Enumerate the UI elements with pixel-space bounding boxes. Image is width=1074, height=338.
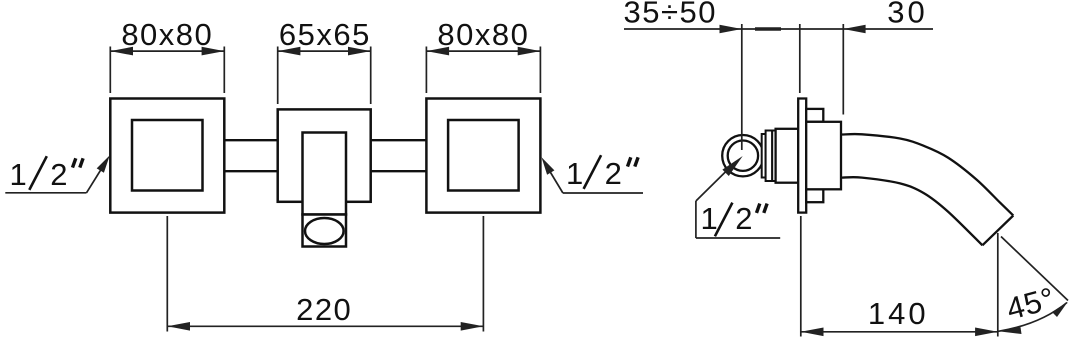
label 1/2 inch right: quote tick 2 xyxy=(635,157,638,166)
dimension 140: dimension line xyxy=(801,331,998,333)
collar ring xyxy=(766,131,773,182)
label 1/2 inch side: vertical leader segment xyxy=(695,201,697,238)
label 1/2 inch side: quote tick 2 xyxy=(764,204,767,213)
svg-text:30: 30 xyxy=(887,0,927,29)
dimension 140: extension line left xyxy=(800,216,802,337)
dimension 80x80 left: extension line right xyxy=(223,47,225,94)
collar cylinder xyxy=(776,129,799,183)
svg-text:80x80: 80x80 xyxy=(437,17,529,52)
dimension 65x65: dimension line xyxy=(278,50,371,52)
spout tube bottom curve xyxy=(842,177,982,245)
dimension 65x65: extension line left xyxy=(277,47,279,105)
dimension 140: extension line right xyxy=(997,233,999,337)
dimension 80x80 right: left arrowhead xyxy=(426,47,449,56)
dimension 65x65: right arrowhead xyxy=(348,47,371,56)
label 1/2 inch left: quote tick 2 xyxy=(80,158,83,167)
svg-text:140: 140 xyxy=(868,296,929,331)
top dimension line xyxy=(624,28,933,30)
extension line at body front xyxy=(842,24,844,115)
extension line at wall face xyxy=(799,24,801,93)
collar neck xyxy=(762,134,766,178)
svg-text:80x80: 80x80 xyxy=(121,17,213,52)
spout bottom square xyxy=(303,215,347,247)
label 1/2 inch right: leader line xyxy=(545,163,563,194)
svg-text:220: 220 xyxy=(296,292,352,327)
bottom step block xyxy=(806,189,823,202)
left plate inner square xyxy=(132,120,203,191)
svg-text:65x65: 65x65 xyxy=(279,17,371,52)
45 degree reference line xyxy=(1001,237,1068,301)
45 degree arc arrowhead right xyxy=(1052,302,1068,317)
right plate outer square xyxy=(426,99,540,213)
dimension 65x65: extension line right xyxy=(370,47,372,105)
dimension 220: left arrowhead xyxy=(167,322,190,331)
label 1/2 inch right: underline xyxy=(563,192,643,194)
spout body block xyxy=(806,122,841,190)
label 1/2 inch right: quote tick 1 xyxy=(628,157,631,166)
label 1/2 inch left: quote tick 1 xyxy=(73,158,76,167)
svg-text:1: 1 xyxy=(701,201,718,236)
top dimension thick dash xyxy=(755,27,781,30)
label 1/2 inch left: underline xyxy=(5,192,86,194)
dimension 80x80 left: extension line left xyxy=(109,47,111,94)
connecting bar left (top edge) xyxy=(224,139,277,141)
arrowhead pointing left at body front xyxy=(843,25,865,34)
connecting bar right (bottom edge) xyxy=(371,170,427,172)
wall plate (side) xyxy=(798,99,806,213)
label 1/2 inch right: slash xyxy=(584,155,602,189)
dimension 140: right arrowhead xyxy=(975,328,998,337)
label 1/2 inch side: quote tick 1 xyxy=(757,204,760,213)
right plate inner square xyxy=(448,120,518,191)
connecting bar right (top edge) xyxy=(371,139,427,141)
45 degree arc xyxy=(998,303,1067,332)
supply connection inner circle xyxy=(728,141,758,171)
dimension 80x80 right: dimension line xyxy=(426,50,540,52)
dimension 80x80 left: dimension line xyxy=(110,50,224,52)
label 1/2 inch left: arrowhead xyxy=(97,155,110,173)
svg-text:2: 2 xyxy=(735,201,752,236)
label 1/2 inch right: arrowhead xyxy=(542,157,555,175)
arrowhead pointing right at connection axis xyxy=(720,25,742,34)
dimension 220: dimension line xyxy=(167,325,483,327)
spout end face xyxy=(982,216,1013,246)
middle inner vertical rectangle xyxy=(303,133,347,215)
dimension 220: right arrowhead xyxy=(461,322,484,331)
svg-text:2: 2 xyxy=(605,156,622,191)
label 1/2 inch left: slash xyxy=(29,156,47,190)
collar band xyxy=(772,131,775,182)
connecting bar left (bottom edge) xyxy=(224,170,277,172)
dimension 80x80 right: extension line left xyxy=(425,47,427,94)
dimension 80x80 right: right arrowhead xyxy=(518,47,541,56)
label 1/2 inch side: slash xyxy=(715,203,733,237)
45 degree arc arrowhead left xyxy=(998,327,1021,334)
dimension 220: extension line right xyxy=(482,216,484,332)
label 1/2 inch side: arrowhead xyxy=(722,156,742,176)
svg-text:35÷50: 35÷50 xyxy=(624,0,717,30)
middle square 65x65 xyxy=(278,109,371,201)
spout outlet ellipse xyxy=(305,218,344,244)
left plate outer square xyxy=(110,99,224,213)
label 1/2 inch side: underline xyxy=(696,237,780,239)
svg-text:1: 1 xyxy=(566,156,583,191)
dimension 65x65: left arrowhead xyxy=(278,47,301,56)
extension line at connection axis xyxy=(741,24,743,150)
svg-text:1: 1 xyxy=(10,157,27,192)
supply connection outer circle xyxy=(722,135,763,176)
dimension 80x80 right: extension line right xyxy=(539,47,541,94)
top step block xyxy=(806,109,823,122)
spout tube top curve xyxy=(842,134,1013,215)
dimension 80x80 left: right arrowhead xyxy=(202,47,225,56)
dimension 80x80 left: left arrowhead xyxy=(110,47,133,56)
dimension 140: left arrowhead xyxy=(801,328,824,337)
dimension 220: extension line left xyxy=(166,216,168,332)
label 1/2 inch side: diagonal leader xyxy=(696,162,736,202)
svg-text:2: 2 xyxy=(50,157,67,192)
label 1/2 inch left: leader line xyxy=(87,162,107,193)
